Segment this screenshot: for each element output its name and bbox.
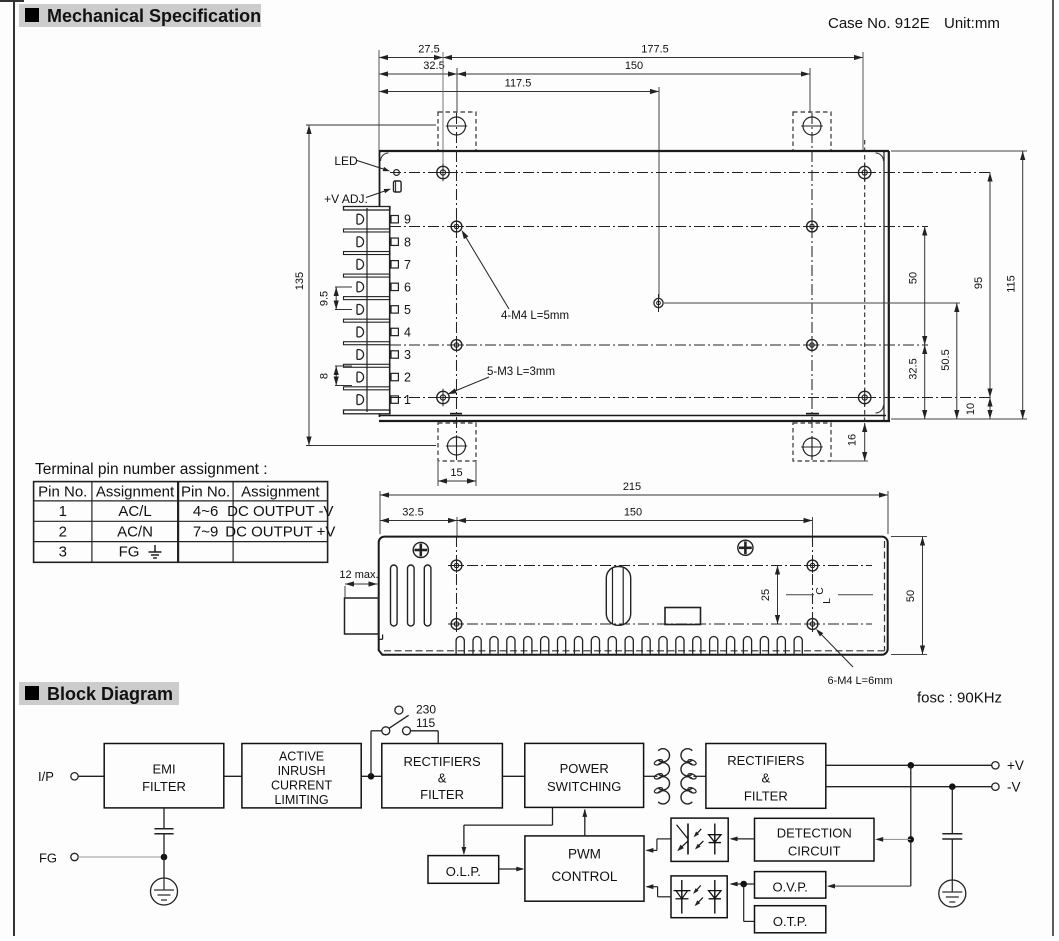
svg-text:+V: +V xyxy=(1007,758,1024,773)
+V ADJ potentiometer xyxy=(394,181,402,192)
centre dashed verticals through mounting holes xyxy=(456,113,458,460)
terminal screw pin 4 xyxy=(357,327,364,337)
top view: dimension 117.5 xyxy=(379,91,659,93)
bracket screw right xyxy=(803,117,821,135)
Y-capacitor under EMI xyxy=(163,808,165,829)
terminal screw pin 8 xyxy=(357,237,364,247)
ground (output side) xyxy=(939,880,966,907)
svg-text:117.5: 117.5 xyxy=(505,78,532,90)
terminal pin stub 1 xyxy=(391,396,398,403)
svg-text:-V: -V xyxy=(1007,780,1021,795)
side view dim 215 xyxy=(380,494,888,496)
svg-text:FILTER: FILTER xyxy=(420,787,464,802)
svg-text:150: 150 xyxy=(624,507,642,519)
wire O.L.P. to PWM xyxy=(499,868,523,870)
svg-text:177.5: 177.5 xyxy=(641,44,669,56)
svg-text:SWITCHING: SWITCHING xyxy=(547,779,621,794)
svg-text:ACTIVE: ACTIVE xyxy=(279,750,324,764)
extension lines for top dims xyxy=(378,50,380,151)
block: EMI FILTER xyxy=(104,744,224,808)
bottom bracket screw left xyxy=(448,437,466,455)
svg-text:1: 1 xyxy=(59,503,67,520)
6-M4 holes side view xyxy=(449,565,464,567)
wires O.V.P./O.T.P. to U2 xyxy=(731,883,755,885)
pin assignment table xyxy=(34,482,328,563)
node FG junction xyxy=(161,854,167,860)
dim 16 bracket height xyxy=(832,460,868,462)
middle vent group xyxy=(606,567,630,626)
wire I/P to EMI xyxy=(78,775,104,777)
AC input connector xyxy=(345,598,379,634)
svg-text:&: & xyxy=(438,770,447,785)
svg-text:3: 3 xyxy=(404,348,411,362)
svg-text:CIRCUIT: CIRCUIT xyxy=(788,844,841,859)
terminal screw pin 7 xyxy=(357,259,364,269)
node OVP/OTP join xyxy=(741,881,747,887)
U2 light arrows xyxy=(694,885,701,892)
svg-text:O.V.P.: O.V.P. xyxy=(772,880,807,895)
svg-text:DC OUTPUT -V: DC OUTPUT -V xyxy=(227,503,333,520)
svg-text:AC/N: AC/N xyxy=(117,523,153,540)
svg-text:4: 4 xyxy=(404,325,411,339)
terminal pin stub 3 xyxy=(391,351,398,358)
callout 6-M4 L=6mm xyxy=(818,631,853,667)
label plate xyxy=(665,608,701,625)
callout 4-M4 L=5mm xyxy=(463,233,509,310)
svg-text:Pin No.: Pin No. xyxy=(181,484,230,501)
svg-text:15: 15 xyxy=(450,467,462,479)
block: O.T.P. xyxy=(755,906,826,933)
svg-text:CONTROL: CONTROL xyxy=(551,869,617,884)
wire ACTIVE to RECTIFIERS1 with junction xyxy=(361,775,382,777)
svg-text:DETECTION: DETECTION xyxy=(777,825,852,840)
svg-text:FG: FG xyxy=(119,544,140,561)
+V output wire xyxy=(826,764,992,766)
block: O.V.P. xyxy=(755,872,826,899)
side view case outline xyxy=(379,537,888,655)
svg-text:&: & xyxy=(762,771,771,786)
block: ACTIVE INRUSH CURRENT LIMITING xyxy=(242,744,361,808)
page left border xyxy=(13,0,15,936)
svg-text:50: 50 xyxy=(908,272,920,284)
svg-text:PWM: PWM xyxy=(568,846,601,861)
dash-dot hole row lines xyxy=(390,172,993,174)
svg-text:2: 2 xyxy=(59,523,67,540)
svg-text:fosc : 90KHz: fosc : 90KHz xyxy=(917,690,1002,707)
svg-text:12 max.: 12 max. xyxy=(339,569,378,581)
wire to DETECTION CIRCUIT xyxy=(877,838,911,840)
svg-text:7~9: 7~9 xyxy=(193,523,218,540)
svg-text:5-M3 L=3mm: 5-M3 L=3mm xyxy=(487,366,555,378)
terminal separator fin xyxy=(344,252,391,255)
block: PWM CONTROL xyxy=(525,836,644,901)
U1 phototransistor xyxy=(687,824,689,855)
dim 15 bottom bracket xyxy=(437,462,439,486)
terminal pin stub 2 xyxy=(391,373,398,380)
svg-text:50.5: 50.5 xyxy=(940,349,952,370)
dash-dot rows through 6-M4 holes xyxy=(448,565,872,567)
svg-text:Assignment: Assignment xyxy=(96,484,175,501)
svg-text:POWER: POWER xyxy=(560,761,609,776)
phillips screws xyxy=(413,542,428,557)
svg-text:27.5: 27.5 xyxy=(418,44,439,56)
terminal separator fin xyxy=(344,364,391,367)
terminal pin stub 6 xyxy=(391,283,398,290)
terminal separator fin xyxy=(344,319,391,322)
terminal separator fin xyxy=(344,229,391,232)
svg-text:1: 1 xyxy=(404,393,411,407)
FG wire xyxy=(78,856,164,858)
svg-text:115: 115 xyxy=(1006,275,1018,293)
wire RECTIFIERS1 to POWER SWITCHING xyxy=(502,775,524,777)
FG earth symbol in table xyxy=(154,545,156,552)
svg-text:LIMITING: LIMITING xyxy=(274,793,328,807)
svg-text:Assignment: Assignment xyxy=(241,484,320,501)
svg-text:10: 10 xyxy=(965,403,977,415)
terminal separator fin xyxy=(344,274,391,277)
optocoupler U2 box xyxy=(671,876,727,918)
svg-text:2: 2 xyxy=(404,371,411,385)
svg-text:Block Diagram: Block Diagram xyxy=(47,684,173,704)
terminal screw pin 3 xyxy=(357,350,364,360)
top view: bottom bracket left (dashed) xyxy=(438,423,476,461)
svg-text:RECTIFIERS: RECTIFIERS xyxy=(403,754,481,769)
wire to O.V.P. xyxy=(829,885,911,887)
wire POWER SWITCHING to O.L.P. xyxy=(552,807,554,825)
svg-text:CURRENT: CURRENT xyxy=(271,778,332,792)
svg-text:32.5: 32.5 xyxy=(423,60,444,72)
section header: Mechanical Specification xyxy=(19,4,261,27)
svg-text:8: 8 xyxy=(404,235,411,249)
dim 8 xyxy=(335,365,352,367)
top view: bottom bracket right (dashed) xyxy=(793,423,831,461)
terminal pin stub 7 xyxy=(391,261,398,268)
node on -V rail xyxy=(950,784,956,790)
terminal pin stub 4 xyxy=(391,328,398,335)
block: RECTIFIERS & FILTER (input) xyxy=(382,744,503,808)
top view: case top mounting bracket left (dashed) xyxy=(438,112,476,151)
centre hole extension line xyxy=(664,302,960,304)
svg-text:Unit:mm: Unit:mm xyxy=(944,15,1000,32)
section header: Block Diagram xyxy=(19,682,179,705)
svg-text:FG: FG xyxy=(39,851,57,866)
U1 light arrows xyxy=(695,829,702,836)
block: POWER SWITCHING xyxy=(525,743,644,807)
node at detection tap xyxy=(908,837,914,843)
svg-text:50: 50 xyxy=(905,590,917,602)
wire PWM to POWER SWITCHING xyxy=(584,810,586,836)
svg-text:Terminal pin number assignment: Terminal pin number assignment : xyxy=(35,461,268,478)
4-M4 holes xyxy=(449,226,464,228)
block: O.L.P. xyxy=(428,856,499,884)
dim 9.5 (pin pitch) xyxy=(335,286,352,288)
terminal pin stub 9 xyxy=(391,216,398,223)
svg-text:3: 3 xyxy=(59,544,67,561)
svg-text:L: L xyxy=(821,598,833,604)
svg-text:215: 215 xyxy=(623,481,641,493)
right side dims of top view xyxy=(891,150,1027,152)
callout 5-M3 L=3mm xyxy=(449,377,489,394)
terminal pin stub 8 xyxy=(391,238,398,245)
svg-text:I/P: I/P xyxy=(38,769,54,784)
svg-text:Mechanical Specification: Mechanical Specification xyxy=(47,6,261,26)
svg-text:8: 8 xyxy=(319,373,331,379)
svg-text:230: 230 xyxy=(416,703,436,717)
terminal screw pin 5 xyxy=(357,305,364,315)
small tabs on bottom edge xyxy=(450,413,462,415)
dim 50 side view xyxy=(891,536,927,538)
svg-text:Pin No.: Pin No. xyxy=(38,484,87,501)
svg-text:EMI: EMI xyxy=(152,762,175,777)
terminal separator fin xyxy=(344,342,391,345)
terminal screw pin 1 xyxy=(357,395,364,405)
svg-text:RECTIFIERS: RECTIFIERS xyxy=(727,753,805,768)
svg-text:C: C xyxy=(814,587,826,595)
svg-text:7: 7 xyxy=(404,258,411,272)
transformer T1 xyxy=(644,775,658,777)
U1 LED xyxy=(714,824,716,855)
svg-text:LED: LED xyxy=(334,154,358,168)
bracket screw left xyxy=(448,117,466,135)
svg-text:150: 150 xyxy=(625,60,643,72)
top view: case top mounting bracket right (dashed) xyxy=(793,112,831,151)
svg-text:16: 16 xyxy=(847,434,859,446)
wire EMI to ACTIVE xyxy=(224,775,242,777)
svg-text:95: 95 xyxy=(973,277,985,289)
-V output wire xyxy=(826,786,992,788)
svg-text:6: 6 xyxy=(404,280,411,294)
block: RECTIFIERS & FILTER (output) xyxy=(706,744,826,809)
terminal separator fin xyxy=(344,387,391,390)
terminal pin stub 5 xyxy=(391,306,398,313)
svg-text:9.5: 9.5 xyxy=(319,291,331,306)
top view: case outline xyxy=(379,150,889,152)
svg-text:O.L.P.: O.L.P. xyxy=(446,864,481,879)
rounded inner corner marks xyxy=(381,153,389,161)
left vent slots xyxy=(391,565,398,626)
dim 25 xyxy=(777,566,779,625)
U2 zener xyxy=(681,880,683,914)
svg-text:Case No. 912E: Case No. 912E xyxy=(828,15,930,32)
terminal screw pin 2 xyxy=(357,372,364,382)
wire U2 to PWM xyxy=(658,896,671,898)
wire U1 to PWM xyxy=(657,838,671,840)
centre screw xyxy=(658,294,660,312)
U2 LED xyxy=(714,880,716,914)
terminal separator fin xyxy=(344,297,391,300)
node on +V rail xyxy=(908,763,914,769)
output capacitor C1 xyxy=(951,787,953,834)
svg-text:DC OUTPUT +V: DC OUTPUT +V xyxy=(225,523,335,540)
bottom vent arches xyxy=(456,637,802,654)
svg-text:6-M4 L=6mm: 6-M4 L=6mm xyxy=(827,675,892,687)
page top-left border stub xyxy=(0,0,24,2)
terminal screw pin 9 xyxy=(357,214,364,224)
block: DETECTION CIRCUIT xyxy=(755,818,875,861)
svg-text:115: 115 xyxy=(416,716,435,730)
5-M3 screws (corners + centre) xyxy=(434,172,451,174)
terminal block body xyxy=(343,206,391,414)
hidden bottom edge (dashed) xyxy=(384,650,885,652)
terminal screw pin 6 xyxy=(357,282,364,292)
node: junction at switch tap xyxy=(368,774,374,780)
svg-text:INRUSH: INRUSH xyxy=(278,764,326,778)
svg-text:4~6: 4~6 xyxy=(193,503,218,520)
centreline CL mark xyxy=(786,594,814,596)
svg-text:+V ADJ.: +V ADJ. xyxy=(324,192,368,206)
wire DETECTION to U1 xyxy=(731,838,755,840)
sense drop line from +V xyxy=(910,765,912,886)
top view: dimension row 27.5 / 177.5 xyxy=(379,57,443,59)
svg-text:32.5: 32.5 xyxy=(402,507,423,519)
svg-text:AC/L: AC/L xyxy=(118,503,151,520)
svg-text:FILTER: FILTER xyxy=(142,779,186,794)
svg-text:4-M4 L=5mm: 4-M4 L=5mm xyxy=(501,310,569,322)
svg-text:O.T.P.: O.T.P. xyxy=(773,914,807,929)
bottom bracket screw right xyxy=(803,438,821,456)
dim 135 left side xyxy=(306,124,436,126)
svg-text:FILTER: FILTER xyxy=(744,788,788,803)
top view: dimension row 32.5 / 150 xyxy=(379,73,457,75)
svg-text:25: 25 xyxy=(760,589,772,601)
side view dims 32.5 / 150 xyxy=(380,520,457,522)
page right border xyxy=(1052,0,1054,936)
svg-text:9: 9 xyxy=(404,213,411,227)
ground (input side) xyxy=(151,878,178,905)
optocoupler U1 box xyxy=(671,818,728,861)
svg-text:32.5: 32.5 xyxy=(908,358,920,379)
svg-text:5: 5 xyxy=(404,303,411,317)
svg-text:135: 135 xyxy=(294,272,306,290)
230/115 voltage selector switch xyxy=(370,731,372,777)
